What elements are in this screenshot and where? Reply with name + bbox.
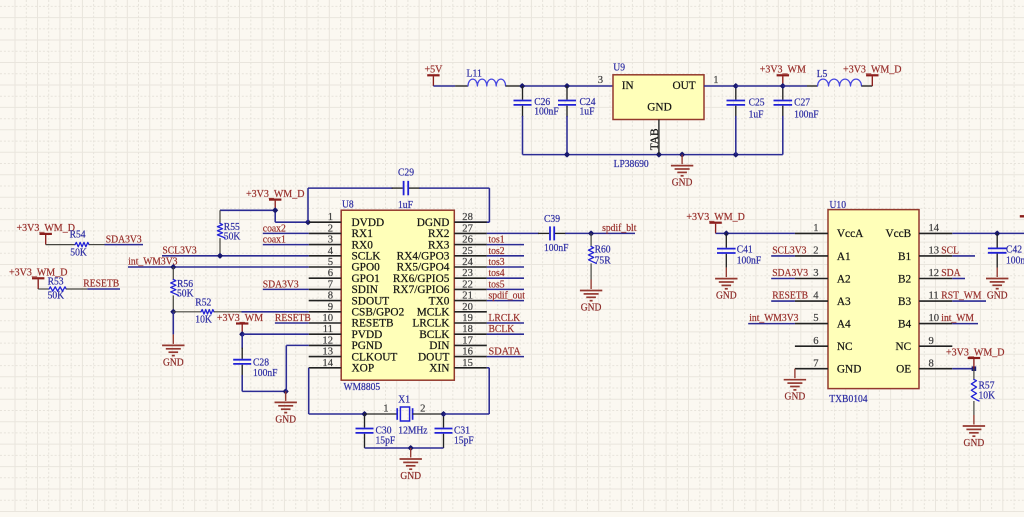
svg-text:spdif_blt: spdif_blt [602,223,636,234]
svg-text:2: 2 [328,223,333,234]
svg-text:RX0: RX0 [352,239,374,251]
net label RESETB at R53 [83,279,120,290]
U8 pin 9 CSB/GPO2 [309,302,405,319]
U8 pin 18 BCLK [419,324,487,341]
ground symbol below crystal [400,448,422,482]
U8 pin 8 SDOUT [309,291,390,308]
svg-text:NC: NC [895,341,911,353]
svg-text:U9: U9 [613,61,625,73]
net label int_WM on U10 pin 10 [941,313,978,324]
net label SDATA on U8 [487,347,524,358]
svg-text:50K: 50K [48,290,65,302]
svg-text:100nF: 100nF [253,367,278,379]
resistor R57 [971,369,995,415]
resistor R52 [173,296,308,325]
svg-text:LRCLK: LRCLK [489,313,521,324]
U8 pin 11 PVDD [309,324,383,341]
svg-text:RESETB: RESETB [83,279,119,290]
U8 pin 24 RX5/GPO4 [397,257,487,274]
svg-text:RX4/GPO3: RX4/GPO3 [397,251,450,263]
net label tos3 on U8 [487,257,524,268]
U10 pin 1 VccA [795,223,864,240]
wire C27 to L5 [783,85,807,87]
svg-text:GND: GND [581,301,602,313]
svg-text:22: 22 [462,279,473,290]
svg-text:16: 16 [462,347,473,358]
capacitor C28 [233,334,289,394]
svg-text:RX5/GPO4: RX5/GPO4 [397,262,450,274]
svg-text:WM8805: WM8805 [344,381,381,393]
svg-text:1: 1 [328,212,333,223]
svg-text:int_WM: int_WM [941,313,974,324]
svg-text:50K: 50K [224,230,241,242]
svg-text:U8: U8 [342,199,354,211]
U10 pin 5 A4 [795,313,851,330]
power flag +5V [424,64,442,86]
svg-text:C39: C39 [544,213,560,225]
svg-text:tos3: tos3 [489,257,505,268]
svg-text:BCLK: BCLK [419,329,450,341]
U8 pin 21 TX0 [429,291,487,308]
net label BCLK on U8 [487,324,524,335]
svg-text:int_WM3V3: int_WM3V3 [128,257,177,268]
net label coax2 on U8 pin 2 [263,223,309,234]
capacitor C25 [727,83,766,155]
svg-text:100nF: 100nF [1006,255,1024,267]
svg-text:VccB: VccB [885,228,911,240]
svg-text:OE: OE [896,364,911,376]
net label SDA on U10 pin 12 [941,268,965,279]
inductor L5 [807,68,872,86]
svg-text:X1: X1 [398,393,410,405]
ground symbol below U10 pin 7 [784,369,806,403]
chip U10 TXB0104 [828,199,919,405]
svg-text:PGND: PGND [352,340,383,352]
wire +5V to L11 [433,85,455,87]
U8 pin 4 SCLK [309,246,382,263]
U8 pin 19 LRCLK [412,313,486,330]
svg-text:23: 23 [462,268,473,279]
svg-text:coax1: coax1 [263,235,286,246]
svg-text:GPO0: GPO0 [352,262,381,274]
U8 pin 7 SDIN [309,279,378,296]
svg-text:A1: A1 [837,251,851,263]
svg-text:TXB0104: TXB0104 [829,393,868,405]
capacitor C39 [487,213,591,254]
svg-text:6: 6 [813,336,818,347]
U10 pin 10 B4 [898,313,952,330]
svg-text:GND: GND [964,437,985,449]
svg-text:C29: C29 [398,167,414,179]
svg-text:SDIN: SDIN [352,284,378,296]
power flag +3V3_WM_D at R53 [9,267,68,289]
svg-text:15: 15 [462,358,473,369]
svg-text:RX2: RX2 [428,228,450,240]
U9 pin 3 number [598,75,603,86]
svg-text:1uF: 1uF [749,108,764,120]
svg-text:SDOUT: SDOUT [352,295,390,307]
U10 pin 11 B3 [898,291,952,308]
svg-text:18: 18 [462,324,473,335]
svg-text:RX1: RX1 [352,228,373,240]
svg-text:24: 24 [462,257,473,268]
wire U10 pin 8 OE to pull resistor [952,366,976,371]
svg-text:+3V3_WM_D: +3V3_WM_D [843,64,902,76]
net label LRCLK on U8 [487,313,524,324]
capacitor C31 [435,411,474,448]
svg-text:100nF: 100nF [737,254,762,266]
svg-text:12MHz: 12MHz [398,424,427,436]
svg-text:20: 20 [462,302,473,313]
power flag +3V3_WM_D at U10 pin 8 [946,346,1005,368]
U8 pin 3 RX0 [309,235,373,252]
U10 pin 7 GND [795,358,861,375]
svg-text:19: 19 [462,313,473,324]
resistor R56 [171,267,194,312]
svg-text:B3: B3 [898,296,912,308]
svg-text:SDA3V3: SDA3V3 [263,279,299,290]
svg-text:RESETB: RESETB [275,313,311,324]
svg-text:8: 8 [328,291,333,302]
svg-text:LRCLK: LRCLK [412,318,450,330]
svg-text:GND: GND [785,391,806,403]
U9 pin 1 wire to C25 [704,75,736,86]
wire U8 pin 14 XOP to crystal [309,368,368,417]
svg-text:R52: R52 [195,296,211,308]
svg-text:11: 11 [323,324,333,335]
svg-text:100nF: 100nF [794,108,819,120]
net label SCL3V3 wire to U8 pin 4 [162,245,309,258]
svg-text:15pF: 15pF [454,435,474,447]
net label RESETB wire to U8 pin 10 [275,313,311,324]
svg-text:A3: A3 [837,296,851,308]
capacitor C29 [308,167,489,223]
svg-text:14: 14 [929,223,940,234]
U10 pin 9 NC [895,336,952,353]
power flag at right edge [1020,215,1024,217]
svg-text:RX3: RX3 [428,239,450,251]
U10 pin 4 A3 [795,291,851,308]
svg-text:13: 13 [929,246,940,257]
svg-text:SDA3V3: SDA3V3 [106,234,142,245]
U9 TAB pin to ground rail [649,120,661,155]
ground symbol below R60 [580,280,602,314]
svg-text:XIN: XIN [429,363,449,375]
svg-text:RESETB: RESETB [352,318,394,330]
wire L11 to U9 pin 3 [519,83,613,89]
net label int_WM3V3 on U10 pin 5 [748,313,798,324]
ground symbol below R57 [963,415,985,449]
power flag +3V3_WM at U8 pin 11 [217,312,309,337]
ground symbol below C28 [275,391,297,425]
svg-text:4: 4 [328,246,334,257]
svg-text:int_WM3V3: int_WM3V3 [749,313,798,324]
U8 pin 14 XOP [309,358,374,375]
svg-text:+3V3_WM: +3V3_WM [217,312,263,324]
svg-text:GND: GND [716,290,737,302]
svg-text:10: 10 [929,313,940,324]
svg-text:10K: 10K [195,314,212,326]
U8 pin 27 RX2 [428,223,487,240]
svg-text:11: 11 [929,291,939,302]
U10 pin 8 OE [896,358,952,375]
U10 pin 2 A1 [795,246,851,263]
svg-text:GND: GND [400,470,421,482]
regulator U9 LP38690 [613,61,704,170]
svg-text:1uF: 1uF [398,199,413,211]
svg-text:3: 3 [598,75,603,86]
svg-text:6: 6 [328,268,333,279]
svg-text:12: 12 [322,335,333,346]
net label RESETB on U10 pin 4 [771,291,808,302]
svg-text:50K: 50K [177,287,194,299]
U8 pin 23 RX6/GPIO5 [393,268,487,285]
svg-text:50K: 50K [70,246,87,258]
svg-text:4: 4 [813,291,819,302]
U10 pin 14 VccB [885,223,952,240]
svg-text:+3V3_WM: +3V3_WM [760,64,806,76]
net label SCL on U10 pin 13 [941,246,975,257]
svg-text:5: 5 [328,257,333,268]
capacitor C42 [988,233,1024,267]
svg-text:U10: U10 [830,199,847,211]
capacitor C30 [356,414,396,448]
capacitor C41 [717,233,761,267]
svg-text:+3V3_WM_D: +3V3_WM_D [686,211,745,223]
svg-text:tos2: tos2 [489,246,505,257]
U8 pin 12 PGND [309,335,383,352]
svg-text:RX6/GPIO5: RX6/GPIO5 [393,273,450,285]
svg-text:25: 25 [462,246,473,257]
svg-text:spdif_out: spdif_out [489,291,525,302]
U10 pin 12 B2 [898,268,952,285]
svg-text:75R: 75R [595,254,612,266]
U8 pin 26 RX3 [428,235,487,252]
svg-text:NC: NC [837,341,853,353]
svg-text:VccA: VccA [837,228,864,240]
svg-text:DVDD: DVDD [352,217,385,229]
U8 pin 22 RX7/GPIO6 [393,279,487,296]
wire R55 to U8 pin 1 [220,188,311,225]
svg-text:GND: GND [837,364,861,376]
U8 pin 20 MCLK [417,302,487,319]
net label spdif_blt [588,223,636,236]
resistor R60 [588,233,611,279]
svg-text:3: 3 [813,268,818,279]
svg-text:GPO1: GPO1 [352,273,380,285]
svg-text:A2: A2 [837,273,851,285]
capacitor C26 [514,86,559,155]
crystal X1 [365,393,444,436]
svg-text:100nF: 100nF [544,242,569,254]
svg-text:C25: C25 [749,96,765,108]
svg-text:15pF: 15pF [376,435,396,447]
svg-text:OUT: OUT [672,80,695,92]
svg-text:R53: R53 [48,276,64,288]
svg-text:L11: L11 [467,68,482,80]
inductor L11 [455,68,520,86]
svg-text:21: 21 [462,291,473,302]
svg-text:5: 5 [813,313,818,324]
net label int_WM3V3 wire to U8 pin 5 [128,257,309,270]
svg-text:GND: GND [672,177,693,189]
chip U8 WM8805 [341,199,454,393]
power flag +3V3_WM_D right of L5 [843,64,902,86]
svg-text:8: 8 [929,358,934,369]
svg-text:17: 17 [462,335,473,346]
svg-text:IN: IN [622,80,634,92]
svg-text:10K: 10K [979,389,996,401]
svg-text:100nF: 100nF [534,105,559,117]
wire U10 pin 14 VccB to right edge [952,230,1024,236]
svg-text:+3V3_WM_D: +3V3_WM_D [16,222,75,234]
net label tos1 on U8 [487,235,524,246]
U8 pin 2 RX1 [309,223,373,240]
svg-text:RST_WM: RST_WM [941,291,982,302]
U8 pin 28 DGND [417,212,487,229]
svg-text:tos4: tos4 [489,268,506,279]
svg-text:BCLK: BCLK [489,324,515,335]
svg-text:DIN: DIN [429,340,449,352]
net label SDA3V3 wire to U8 pin 7 [263,279,309,290]
resistor R54 [46,229,105,259]
power flag +3V3_WM_D at U10 pin 1 [686,211,795,236]
svg-text:PVDD: PVDD [352,329,383,341]
svg-text:28: 28 [462,212,473,223]
svg-text:+5V: +5V [424,64,442,76]
svg-text:B4: B4 [898,318,912,330]
U8 pin 5 GPO0 [309,257,380,274]
ground symbol below C42 [986,268,1008,302]
svg-text:SDATA: SDATA [489,347,522,358]
net label SDA3V3 at R54 [105,234,144,245]
svg-text:TX0: TX0 [429,295,450,307]
svg-text:7: 7 [813,358,818,369]
net label tos2 on U8 [487,246,524,257]
svg-text:2: 2 [420,404,425,415]
svg-text:L5: L5 [817,68,828,80]
U8 pin 25 RX4/GPO3 [397,246,487,263]
power flag +3V3_WM [760,64,806,86]
capacitor C24 [558,86,596,155]
svg-text:+3V3_WM_D: +3V3_WM_D [246,188,305,200]
wire crystal ground rail [365,445,444,451]
ground symbol at U9 [671,155,693,189]
ground symbol below C41 [715,268,737,302]
net label tos4 on U8 [487,268,524,279]
svg-text:9: 9 [929,336,934,347]
svg-text:RX7/GPIO6: RX7/GPIO6 [393,284,450,296]
svg-text:26: 26 [462,235,473,246]
svg-text:14: 14 [322,358,333,369]
svg-text:C27: C27 [794,96,810,108]
net label SDA3V3 on U10 pin 3 [771,268,808,279]
svg-text:SCL3V3: SCL3V3 [772,246,806,257]
svg-text:12: 12 [929,268,940,279]
resistor R55 [217,210,240,256]
wire C25 to C27 [736,85,783,87]
svg-text:13: 13 [322,347,333,358]
svg-text:27: 27 [462,223,473,234]
wire U8 pin 15 XIN to crystal [444,368,490,414]
U10 pin 13 B1 [898,246,952,263]
net label spdif_out on U8 [487,291,525,302]
svg-text:DOUT: DOUT [418,351,449,363]
U8 pin 16 DOUT [418,347,487,364]
svg-text:GND: GND [987,289,1008,301]
svg-text:DGND: DGND [417,217,450,229]
svg-text:CLKOUT: CLKOUT [352,351,398,363]
svg-text:SDA: SDA [941,268,961,279]
power flag +3V3_WM_D at R54 [16,222,75,244]
U8 pin 13 CLKOUT [309,347,398,364]
svg-text:GND: GND [275,413,296,425]
svg-text:LP38690: LP38690 [614,158,650,170]
svg-text:coax2: coax2 [263,223,286,234]
svg-text:A4: A4 [837,318,851,330]
svg-text:2: 2 [813,246,818,257]
svg-text:1: 1 [383,404,388,415]
wire L5 to +3V3_WM_D flag [0,0,1,1]
svg-text:SCLK: SCLK [352,251,382,263]
svg-text:SDA3V3: SDA3V3 [772,268,808,279]
svg-text:SCL3V3: SCL3V3 [162,245,196,256]
power flag +3V3_WM_D above U8 [246,188,305,222]
svg-text:1: 1 [813,223,818,234]
capacitor C27 [774,83,819,155]
svg-text:10: 10 [322,313,333,324]
svg-text:CSB/GPO2: CSB/GPO2 [352,307,405,319]
svg-text:GND: GND [163,356,184,368]
U8 pin 15 XIN [429,358,486,375]
net label tos5 on U8 [487,279,524,290]
svg-text:R54: R54 [70,229,86,241]
svg-text:3: 3 [328,235,333,246]
svg-text:XOP: XOP [352,363,375,375]
U8 pin 17 DIN [429,335,486,352]
U10 pin 6 NC [795,336,853,353]
U8 pin 6 GPO1 [309,268,380,285]
svg-text:9: 9 [328,302,333,313]
U8 pin 1 DVDD [309,212,384,229]
net label SCL3V3 on U10 pin 2 [771,246,806,257]
svg-text:RESETB: RESETB [772,291,808,302]
svg-text:tos1: tos1 [489,235,505,246]
svg-text:B1: B1 [898,251,911,263]
ground rail under U9 [523,152,783,158]
U10 pin 3 A2 [795,268,851,285]
svg-text:+3V3_WM_D: +3V3_WM_D [946,346,1005,358]
svg-text:1uF: 1uF [580,105,595,117]
net label RST_WM on U10 pin 11 [941,291,986,302]
ground symbol below R56 [162,334,184,368]
svg-text:1: 1 [713,75,718,86]
svg-text:TAB: TAB [649,128,661,150]
resistor R53 [38,276,87,302]
svg-text:GND: GND [647,101,671,113]
svg-text:B2: B2 [898,273,912,285]
svg-text:7: 7 [328,279,333,290]
svg-text:MCLK: MCLK [417,307,450,319]
net label coax1 on U8 pin 3 [263,235,309,246]
wire U8 pin 12 PGND to ground [286,345,308,391]
wire R56 bottom to ground [170,309,176,335]
svg-text:SCL: SCL [941,246,959,257]
svg-text:tos5: tos5 [489,279,505,290]
U8 pin 10 RESETB [309,313,394,330]
